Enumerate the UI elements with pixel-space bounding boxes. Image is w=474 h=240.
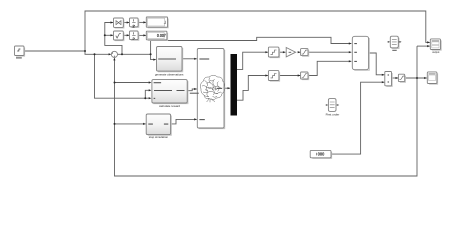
svg-text:stop simulation: stop simulation [149,135,169,139]
svg-text:First order: First order [326,113,340,117]
svg-text:output: output [432,50,439,54]
svg-text:generate observations: generate observations [155,72,184,76]
svg-text:calculate reward: calculate reward [159,104,180,108]
